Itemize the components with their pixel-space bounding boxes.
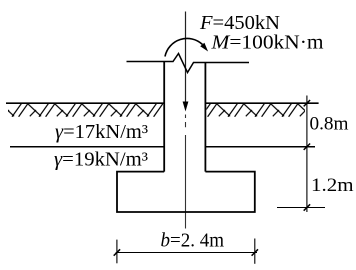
column break line (zigzag cut at top of column) — [127, 54, 250, 73]
bottom dimension extension line left — [116, 240, 118, 264]
column left edge — [163, 62, 165, 172]
column centre line (dash-dot) below arrow — [185, 115, 187, 229]
svg-text:1.2m: 1.2m — [311, 175, 354, 196]
moment arc arrowhead — [200, 43, 208, 52]
svg-text:0.8m: 0.8m — [310, 114, 349, 135]
column axis solid line with force arrow shaft — [185, 12, 187, 104]
footing outline — [117, 172, 255, 212]
ground surface line right — [205, 102, 318, 104]
svg-text:F=450kN: F=450kN — [199, 12, 280, 34]
tick at footing base — [304, 204, 310, 210]
column right edge — [204, 63, 206, 172]
tick at soil boundary — [304, 144, 310, 150]
extension line at footing base right — [277, 207, 325, 209]
ground surface line left — [6, 102, 164, 104]
bottom dimension extension line right — [254, 239, 256, 264]
ground hatch left — [8, 104, 163, 117]
tick at ground level — [304, 100, 310, 106]
svg-text:b=2. 4m: b=2. 4m — [161, 229, 225, 251]
soil layer boundary line right — [205, 146, 315, 148]
moment arc M — [165, 38, 203, 56]
right dimension line vertical — [306, 96, 308, 213]
svg-text:γ=17kN/m³: γ=17kN/m³ — [55, 121, 148, 143]
ground hatch right — [207, 104, 306, 117]
tick at dimension right — [252, 249, 258, 255]
svg-text:M=100kN·m: M=100kN·m — [210, 32, 324, 54]
tick at dimension left — [114, 249, 120, 255]
svg-text:γ=19kN/m³: γ=19kN/m³ — [54, 149, 148, 171]
soil layer boundary line left — [10, 146, 164, 148]
bottom dimension line — [116, 252, 257, 254]
force F arrowhead — [183, 102, 189, 112]
